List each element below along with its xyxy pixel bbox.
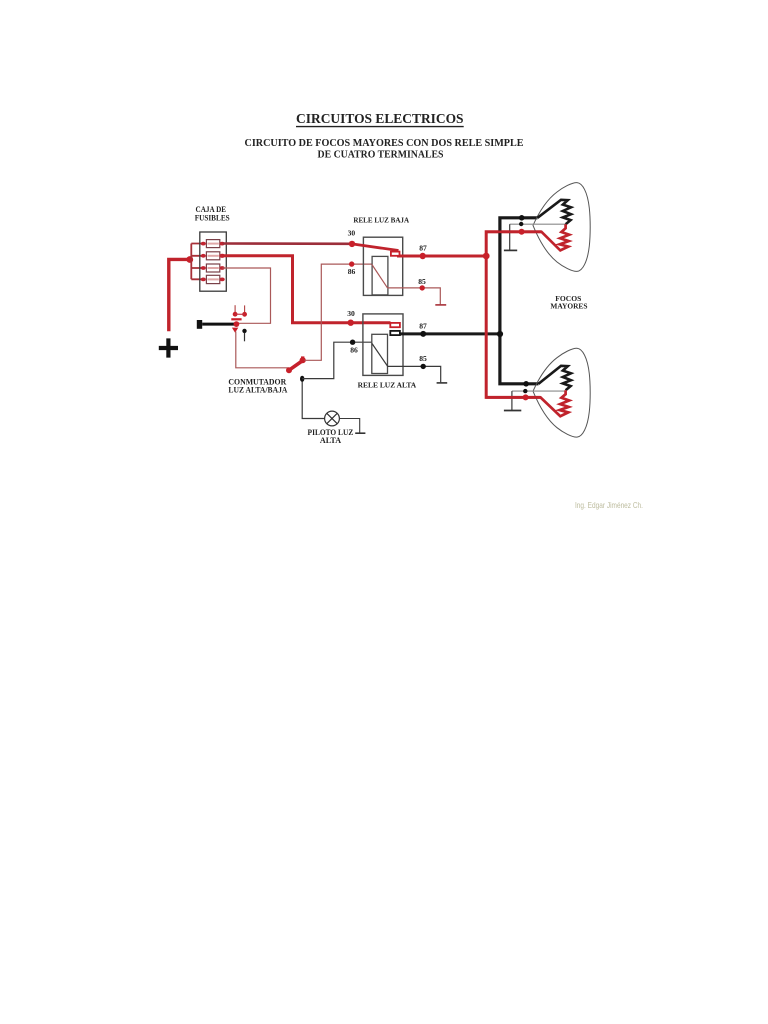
fuse box CAJA DE FUSIBLES bbox=[195, 205, 230, 291]
node relay U1 terminal 85 bbox=[420, 285, 425, 290]
svg-text:ALTA: ALTA bbox=[320, 436, 341, 445]
wire piloto lamp to ground bbox=[339, 419, 359, 433]
svg-text:FUSIBLES: FUSIBLES bbox=[195, 214, 230, 223]
label conmutador bbox=[228, 378, 287, 395]
svg-text:RELE LUZ BAJA: RELE LUZ BAJA bbox=[353, 216, 409, 225]
svg-text:DE CUATRO TERMINALES: DE CUATRO TERMINALES bbox=[318, 150, 444, 161]
svg-text:CIRCUITO DE FOCOS MAYORES CON: CIRCUITO DE FOCOS MAYORES CON DOS RELE S… bbox=[245, 138, 524, 149]
node headlamp lower red terminal bbox=[523, 394, 529, 400]
wire headlamp lower ground line bbox=[512, 390, 566, 392]
wire relay U1 85 to ground bbox=[388, 288, 441, 304]
wire relay U1 87 to red bus bbox=[397, 255, 486, 258]
fuse F1 bbox=[201, 240, 225, 248]
node relay U1 terminal 86 bbox=[349, 261, 354, 266]
node headlamp lower black terminal bbox=[523, 381, 529, 387]
wire relay U1 coil diagonal bbox=[372, 265, 388, 288]
wire alta contact to relay K2 terminal 86 bbox=[302, 342, 372, 378]
fuse F2 bbox=[201, 252, 225, 260]
wire headlamp upper ground line bbox=[510, 223, 566, 225]
node headlamp upper red terminal bbox=[519, 229, 525, 235]
node black bus junction 87 bbox=[497, 331, 503, 337]
wire fuse F3 to dimmer switch bbox=[223, 268, 271, 323]
dimmer switch aux contact bbox=[242, 329, 246, 342]
wire red bus bbox=[486, 232, 541, 398]
lamp piloto luz alta bbox=[325, 411, 340, 426]
wire fuse F1 to relay K1 terminal 30 bbox=[223, 242, 353, 245]
relay U2 contact 87 bbox=[390, 331, 400, 335]
headlamp lower high-beam filament bbox=[539, 366, 572, 390]
node relay U2 terminal 30 bbox=[348, 320, 354, 326]
conmutador lever switch bbox=[286, 356, 306, 373]
svg-text:86: 86 bbox=[350, 346, 358, 355]
node relay U1 terminal 30 bbox=[349, 241, 355, 247]
svg-text:RELE LUZ ALTA: RELE LUZ ALTA bbox=[358, 381, 417, 390]
ground headlamp lower bbox=[504, 410, 521, 412]
fuse F4 bbox=[201, 275, 225, 283]
conmutador alta contact node bbox=[300, 376, 304, 382]
dimmer switch arrow contact bbox=[232, 328, 238, 333]
ground relay U1 terminal 85 bbox=[435, 304, 446, 306]
dimmer switch handle bbox=[197, 320, 235, 329]
headlamp upper low-beam filament red bbox=[486, 224, 569, 250]
wire alta contact to piloto lamp bbox=[302, 382, 324, 419]
node headlamp upper black terminal bbox=[519, 215, 525, 221]
svg-text:87: 87 bbox=[419, 243, 427, 252]
node relay U2 terminal 87 bbox=[420, 331, 426, 337]
label piloto bbox=[308, 428, 354, 445]
node relay U2 terminal 85 bbox=[421, 364, 426, 369]
wire lever tip to relay K1 terminal 86 bbox=[305, 264, 372, 360]
wire black bus bbox=[500, 218, 539, 384]
svg-text:85: 85 bbox=[419, 354, 427, 363]
svg-text:30: 30 bbox=[348, 228, 356, 237]
wire battery feed to fuse box bbox=[169, 259, 190, 331]
ground piloto lamp bbox=[355, 432, 365, 434]
node dimmer switch junction bbox=[234, 321, 240, 327]
node relay U1 terminal 87 bbox=[420, 253, 426, 259]
relay U2 RELE LUZ ALTA bbox=[358, 314, 417, 390]
title CIRCUITOS ELECTRICOS bbox=[296, 111, 464, 126]
wire dimmer to conmutador lever bbox=[236, 332, 289, 368]
battery + terminal bbox=[159, 338, 178, 357]
headlamp lower shell bbox=[533, 348, 590, 437]
wire relay U2 coil diagonal bbox=[372, 343, 388, 366]
svg-text:30: 30 bbox=[347, 309, 355, 318]
wire fuse F2 to relay K2 terminal 30 bbox=[223, 256, 391, 323]
svg-text:85: 85 bbox=[418, 277, 426, 286]
node headlamp lower ground terminal bbox=[523, 389, 527, 393]
wire relay U2 87 to black bus bbox=[397, 332, 500, 335]
node battery feed junction bbox=[186, 256, 193, 263]
node relay U2 terminal 86 bbox=[350, 340, 355, 345]
svg-text:86: 86 bbox=[348, 267, 356, 276]
node headlamp upper ground terminal bbox=[519, 222, 523, 226]
svg-text:CIRCUITOS ELECTRICOS: CIRCUITOS ELECTRICOS bbox=[296, 111, 464, 126]
label focos mayores bbox=[550, 294, 587, 311]
svg-text:Ing. Edgar Jiménez Ch.: Ing. Edgar Jiménez Ch. bbox=[575, 500, 643, 510]
relay U1 armature wire 30 to 87 contact bbox=[352, 244, 399, 251]
headlamp lower low-beam filament red bbox=[486, 390, 569, 416]
ground relay U2 terminal 85 bbox=[437, 382, 448, 384]
relay U2 contact a bbox=[390, 323, 400, 327]
svg-text:87: 87 bbox=[419, 321, 427, 330]
ground headlamp upper bbox=[504, 249, 517, 251]
svg-text:MAYORES: MAYORES bbox=[550, 301, 587, 310]
dimmer switch contacts bbox=[231, 305, 247, 320]
node red bus junction 87 bbox=[483, 253, 490, 260]
relay U1 RELE LUZ BAJA bbox=[353, 216, 409, 296]
relay U1 contact 87 bbox=[391, 252, 400, 256]
headlamp upper high-beam filament bbox=[538, 200, 572, 224]
wire fuse supply bus bbox=[191, 244, 203, 280]
wire relay U2 85 to ground bbox=[388, 366, 441, 382]
fuse F3 bbox=[201, 264, 225, 272]
headlamp upper shell bbox=[533, 183, 590, 272]
svg-text:LUZ ALTA/BAJA: LUZ ALTA/BAJA bbox=[228, 386, 287, 395]
